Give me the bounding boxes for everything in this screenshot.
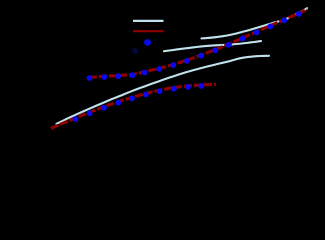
light blue curve LB1 (lower branch, flattens to the right) bbox=[57, 56, 270, 124]
legend: blue dot sample bbox=[144, 39, 151, 46]
faint dark-blue dot near legend bbox=[132, 48, 138, 54]
light blue curve LB3 (upper branch riding above diagonal to corner) bbox=[202, 8, 308, 38]
legend: red line sample bbox=[133, 30, 164, 32]
blue data dots on branch B1 bbox=[73, 83, 205, 122]
red dashed branch B1 (lower) bbox=[51, 84, 216, 128]
blue data dots on branch B2 bbox=[87, 11, 302, 81]
legend: light blue line sample bbox=[133, 20, 164, 22]
light blue curve LB2 (middle flat branch segment) bbox=[164, 41, 261, 51]
chart: avoided-crossing dispersion plot bbox=[0, 0, 325, 159]
red dashed branch B2 (upper, to top-right corner) bbox=[89, 9, 307, 77]
